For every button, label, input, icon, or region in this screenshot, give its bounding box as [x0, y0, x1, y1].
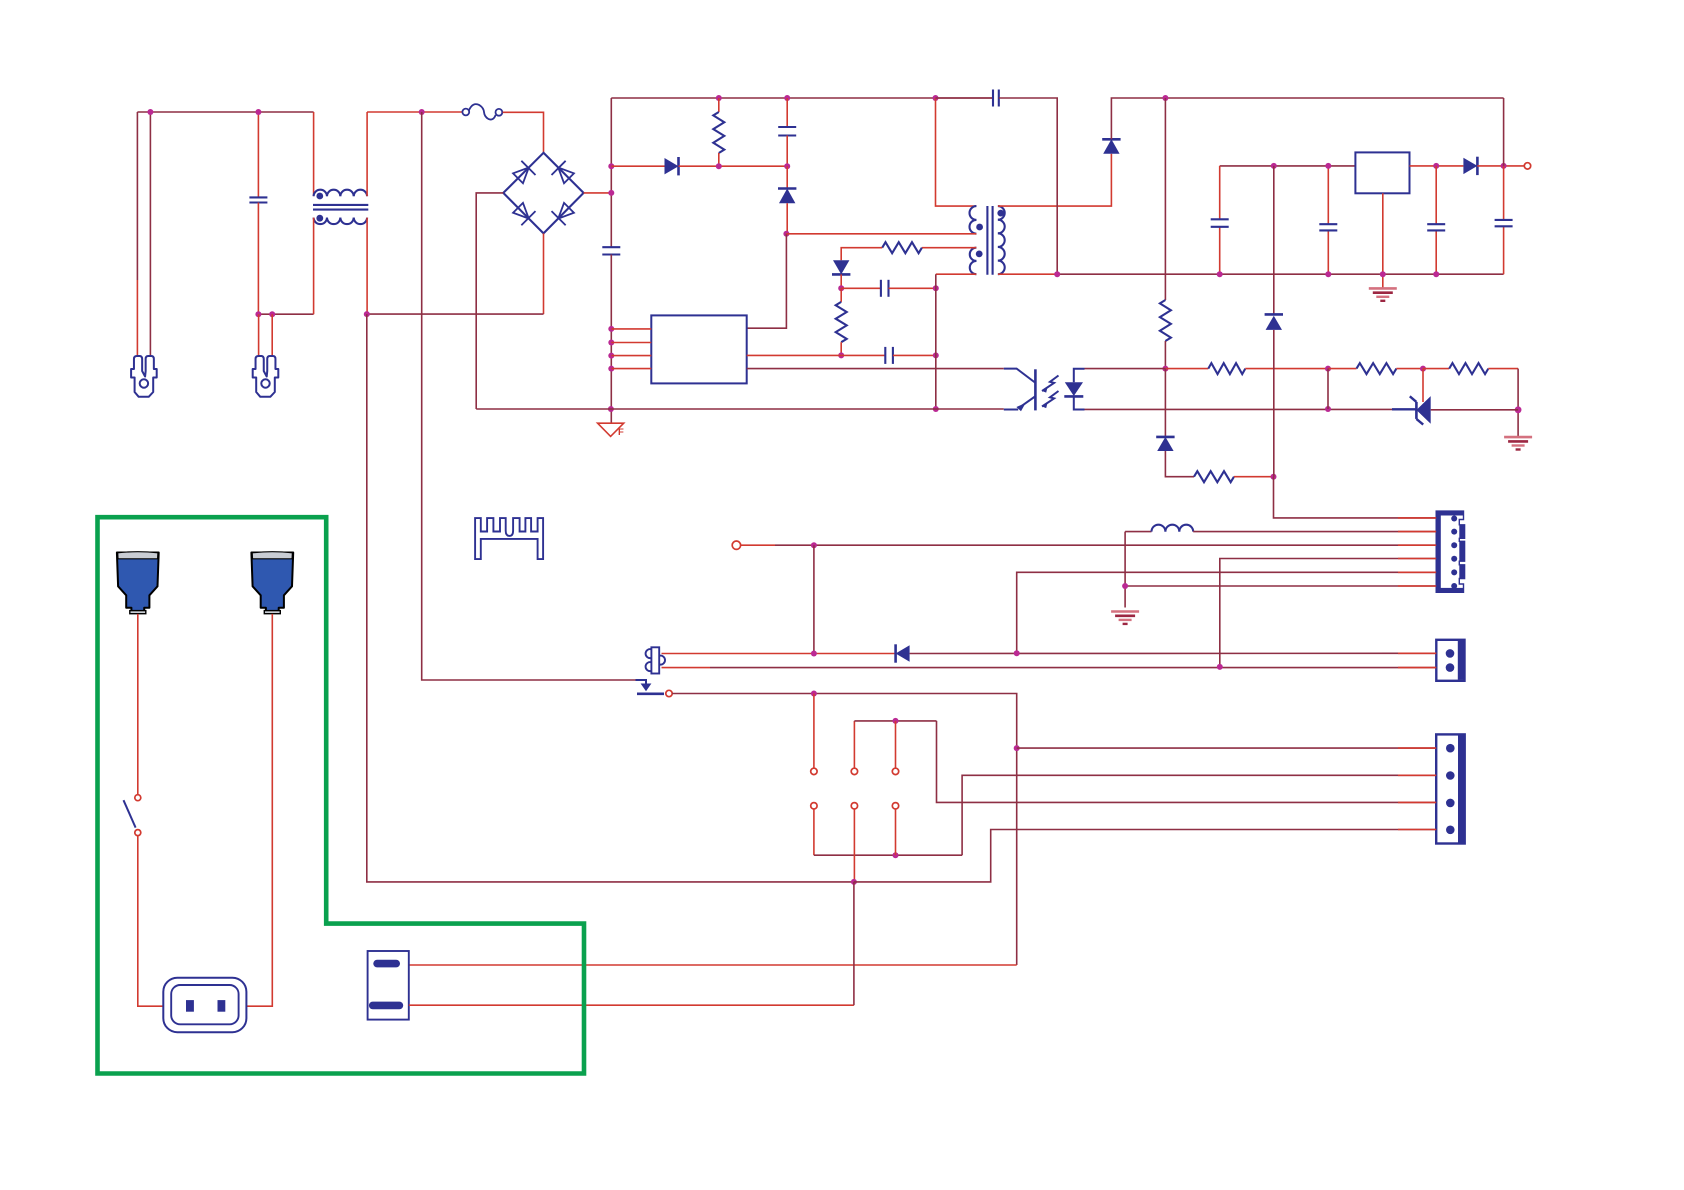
- wire P1 drop: [137, 614, 139, 795]
- thermal cutout SW2: [636, 680, 665, 694]
- wire choke L1 right riser: [366, 112, 368, 196]
- wire top-left rail L segment: [137, 111, 313, 113]
- wire railA to Y-cap: [936, 97, 994, 99]
- fuse F1: [462, 104, 502, 119]
- tl431 U4: [1392, 396, 1518, 425]
- diode D4 secondary rect: [1102, 139, 1120, 154]
- wire output top corner: [1219, 165, 1221, 167]
- inductor L1 bottom winding: [314, 218, 368, 225]
- wire fb bridge vertical: [1327, 369, 1329, 409]
- inductor L2: [1152, 525, 1194, 532]
- wire aux R2 to corner: [841, 248, 882, 261]
- wire contact1 top drop: [813, 694, 815, 769]
- ground secondary right: [1504, 437, 1532, 449]
- node minus-sense junction: [1271, 474, 1277, 480]
- wire J3 pin tips: [1398, 748, 1436, 829]
- wire D5 to terminal: [1477, 165, 1524, 167]
- node rail-T1 junction: [933, 95, 939, 101]
- diode BR1-D4 (bottom-right arm): [552, 203, 574, 225]
- wire fb row to R5: [1165, 368, 1208, 370]
- inductor L1 top winding: [314, 190, 368, 197]
- node railB-sense junction: [1162, 95, 1168, 101]
- resistor R5 fb: [1208, 363, 1245, 374]
- ac outlet J4: [163, 978, 246, 1032]
- wire L2 to J1 pin2: [1193, 531, 1436, 533]
- ground F primary: [598, 423, 624, 438]
- resistor R3 aux: [836, 288, 847, 355]
- wire bridge left vertex to DC-: [476, 193, 503, 409]
- wire fb row r1: [1085, 368, 1166, 370]
- capacitor C7 out: [1211, 219, 1229, 227]
- terminal SW2 circle: [666, 690, 672, 696]
- node fb-row junction3: [1420, 366, 1426, 372]
- core T1: [987, 206, 992, 275]
- wire fuse to bridge top: [503, 112, 544, 153]
- wire thermal to relay net: [409, 694, 1017, 966]
- capacitor C2 bulk: [602, 247, 620, 254]
- wire aux sense diode stem: [1164, 369, 1166, 437]
- ic U1 box: [651, 315, 746, 383]
- wire D7 down: [1273, 330, 1275, 477]
- wire R5 to node: [1245, 368, 1328, 370]
- diode D6 fb: [1156, 437, 1174, 451]
- wire contact top bus: [854, 720, 936, 722]
- wire D4 to rail B: [1111, 98, 1503, 139]
- node IC pin1 junction: [608, 326, 614, 332]
- node pin6-gnd junction: [1122, 583, 1128, 589]
- wire P2 drop: [246, 614, 272, 1006]
- wire J1 pin tips: [1398, 518, 1436, 586]
- node C9-top junction: [1433, 163, 1439, 169]
- connector J2: [1436, 640, 1464, 681]
- capacitor C4 aux: [881, 280, 889, 297]
- terminal sense circle: [732, 541, 740, 549]
- relay contact circles bottom: [811, 803, 899, 809]
- wire terminal E1 tine-b drop: [149, 112, 151, 356]
- connector J1: [1436, 511, 1464, 592]
- node T1 aux phase dot: [976, 251, 983, 258]
- node J3 pin1 junction: [1014, 745, 1020, 751]
- node T1 secondary phase dot: [997, 210, 1004, 217]
- node aux return-gnd junction: [933, 406, 939, 412]
- wire L2 ground drop: [1124, 532, 1126, 608]
- node contact2-ACline2 junction: [851, 879, 857, 885]
- diode D7 sense: [1265, 314, 1283, 330]
- node C8-bottom junction: [1325, 271, 1331, 277]
- diode D5 output: [1463, 157, 1477, 175]
- resistor R1 snubber: [713, 98, 724, 166]
- regulator U3 box: [1355, 152, 1409, 193]
- current sensor CT1: [646, 647, 665, 673]
- wire contact2 bottom drop: [853, 809, 855, 882]
- node DC+ bridge junction: [608, 190, 614, 196]
- node T1 primary phase dot: [976, 224, 983, 231]
- wire terminal E2 tine-b drop: [271, 314, 273, 356]
- wire D8 to J2 pin1: [910, 652, 1437, 654]
- node Vout junction: [1501, 163, 1507, 169]
- wire choke L1 right-bottom drop: [366, 218, 368, 315]
- node contact3-busb junction: [893, 852, 899, 858]
- ground secondary under U3: [1369, 288, 1397, 300]
- wire D6 to R8: [1165, 451, 1194, 477]
- enclosure outline: [98, 517, 585, 1073]
- node pin4-J2bot junction: [1217, 664, 1223, 670]
- wire DC+ vertical x=611: [610, 98, 612, 247]
- node C9-bottom junction: [1433, 271, 1439, 277]
- wire aux cap C4 left stem: [841, 287, 881, 289]
- wire coil bottom net: [409, 882, 854, 1005]
- wire snubber bottom y=166 b: [679, 165, 788, 167]
- wire D3 to node: [840, 274, 842, 288]
- node tl431 anode junction: [1515, 406, 1522, 413]
- svg-text:F: F: [618, 427, 624, 438]
- wire Y-cap down: [999, 98, 1057, 274]
- wire J1 pin3 net: [741, 544, 1437, 546]
- node aux cap-C4 junction: [933, 285, 939, 291]
- node C3-bottom junction: [784, 163, 790, 169]
- node rail-C1 junction: [255, 109, 261, 115]
- node rail-E1 junction: [147, 109, 153, 115]
- wire U3 out to D5: [1410, 165, 1464, 167]
- node choke-ACline2 junction: [364, 311, 370, 317]
- wire neutral link y=314: [258, 313, 313, 315]
- wire rail to fuse: [367, 111, 462, 113]
- wire snubber bottom y=166: [611, 165, 664, 167]
- wire J3 pin1 net: [1017, 747, 1436, 749]
- wire AC line1 vertical: [422, 112, 636, 680]
- wire primary gnd vertical x=611: [610, 255, 612, 424]
- node contact1-top junction: [811, 691, 817, 697]
- capacitor C8 out: [1319, 224, 1337, 230]
- wire aux top with R2: [922, 247, 977, 249]
- node pin5-J2top junction: [1014, 650, 1020, 656]
- wire out-sense vertical: [1273, 166, 1275, 314]
- node CT-pin3link junction: [811, 651, 817, 657]
- wire pin3 to J2 link: [813, 545, 815, 653]
- node fb-row junction1: [1162, 366, 1168, 372]
- capacitor C6 Y-cap: [993, 90, 999, 107]
- wire output cap C8: [1327, 166, 1329, 274]
- wire J1 pin4 net: [1220, 559, 1436, 667]
- wire output cap C10: [1503, 166, 1505, 274]
- diode D8: [896, 644, 910, 662]
- wire U1 fb pin to C5: [747, 354, 886, 356]
- node IC pin4 junction: [608, 366, 614, 372]
- resistor R7 fb: [1423, 363, 1518, 374]
- wire pgnd rail y=409: [476, 408, 1004, 410]
- optocoupler U2 light arrows: [1042, 376, 1059, 409]
- wire R4 to fb row: [1164, 341, 1166, 369]
- wire J1 pin2 coil feed: [1125, 531, 1151, 533]
- wire bottom bus to J3 pin2: [962, 775, 1436, 855]
- wire choke L1 left riser: [313, 112, 315, 196]
- node IC pin3 junction: [608, 353, 614, 359]
- wire contact bottom bus: [814, 854, 962, 856]
- terminal Vout circle: [1524, 163, 1530, 169]
- node out-sense junction: [1271, 163, 1277, 169]
- wire output cap C7: [1219, 166, 1221, 274]
- resistor R6 fb: [1328, 363, 1423, 374]
- wire output top row: [1220, 165, 1356, 167]
- diode BR1-D1 (top-left arm): [513, 161, 535, 183]
- wire led cathode row: [1085, 408, 1393, 410]
- node U3-gnd junction: [1380, 271, 1386, 277]
- node rail-R1 junction: [716, 95, 722, 101]
- wire secondary bottom rail: [998, 273, 1504, 275]
- node pin3-J2 junction: [811, 542, 817, 548]
- wire primary rail y=98: [611, 97, 993, 99]
- wire C5 to aux return: [893, 354, 936, 356]
- wire terminal E1 tine-a drop: [136, 112, 138, 356]
- diode D1 boost: [665, 157, 679, 175]
- wire CT to J2 pin1: [662, 653, 896, 655]
- capacitor C9 out: [1427, 224, 1445, 230]
- node C7-bottom junction: [1217, 271, 1223, 277]
- wire top bus to J3 pin3: [937, 721, 1437, 803]
- node IC pin2 junction: [608, 340, 614, 346]
- wire SW1 to outlet: [138, 836, 164, 1007]
- resistor R2 aux: [882, 242, 922, 253]
- wire T1 primary bottom: [786, 233, 976, 235]
- wire CT to J2 pin2: [662, 667, 1437, 669]
- node fb-row junction2: [1325, 366, 1331, 372]
- wire drain to IC: [747, 234, 787, 328]
- node L1 top phase dot: [316, 193, 323, 200]
- wire sense divider top: [1164, 98, 1166, 300]
- node rail-C3 junction: [784, 95, 790, 101]
- wire cap C1 bottom stem: [257, 203, 259, 315]
- connector J3: [1436, 734, 1465, 843]
- connector P1 plug: [117, 552, 159, 614]
- wire contact2 top: [853, 721, 855, 768]
- ground logic: [1111, 612, 1139, 624]
- wire aux cap C4 right stem: [889, 287, 936, 289]
- wire cap C1 top stem: [257, 112, 259, 197]
- wire secondary top to D4: [998, 154, 1112, 206]
- diode BR1-D3 (bottom-left arm): [513, 203, 535, 225]
- wire aux winding bottom: [936, 273, 977, 275]
- wire bridge right vertex to DC+: [584, 192, 612, 194]
- heatsink HS1: [475, 518, 543, 559]
- wire output cap C9: [1435, 166, 1437, 274]
- node C5-return junction: [933, 352, 939, 358]
- node fb-bridge junction: [1325, 406, 1331, 412]
- capacitor C5 aux: [885, 347, 893, 364]
- wire contact3 top: [895, 721, 897, 768]
- resistor R4 sense: [1160, 300, 1171, 341]
- wire railB down to Vout: [1503, 98, 1505, 166]
- wire opto collector row: [747, 368, 1004, 370]
- capacitor C1 (X-cap): [249, 197, 267, 202]
- diode D3 aux rect: [832, 260, 850, 274]
- resistor R8: [1194, 471, 1234, 482]
- transformer T1 secondary winding: [998, 206, 1005, 274]
- diode D2 clamp: [778, 189, 796, 204]
- wire J1 pin1 net: [1274, 477, 1437, 518]
- node L1 bottom phase dot: [316, 215, 323, 222]
- node aux node1 junction: [838, 285, 844, 291]
- wire R7 down to gnd row: [1517, 369, 1519, 437]
- connector P2 plug: [251, 552, 293, 614]
- wire choke L1 left-bottom drop: [313, 218, 315, 315]
- switch SW1: [124, 795, 141, 836]
- node R1-bottom junction: [716, 163, 722, 169]
- node rail-ACline1 junction: [419, 109, 425, 115]
- node pgnd junction: [608, 406, 614, 412]
- node drain junction: [783, 231, 789, 237]
- wire J1 pin5 net: [1017, 572, 1436, 653]
- transformer T1 primary winding: [970, 206, 977, 234]
- wire aux return vertical: [935, 274, 937, 409]
- wire bridge bottom vertex drop: [367, 233, 544, 314]
- wire AC line2 vertical: [367, 314, 854, 882]
- wire R8 to J1 net: [1234, 476, 1274, 478]
- node contact3-bus junction: [893, 718, 899, 724]
- relay coil K1: [368, 951, 409, 1020]
- transformer T1 aux winding: [970, 248, 977, 275]
- node C8-top junction: [1325, 163, 1331, 169]
- wire U1 pin stubs left: [611, 329, 651, 369]
- wire clamp to drain node: [786, 203, 788, 234]
- terminal lug E1: [131, 356, 157, 397]
- diode BR1-D2 (top-right arm): [552, 161, 574, 183]
- wire U3 ground stem: [1382, 193, 1384, 288]
- optocoupler U2 phototransistor: [1004, 369, 1036, 412]
- wire contact3 bottom: [895, 809, 897, 855]
- terminal lug E2: [253, 356, 279, 397]
- capacitor C3 snubber: [778, 98, 796, 166]
- core L1: [313, 205, 368, 210]
- bridge BR1 diamond: [503, 153, 583, 234]
- node E2-neutral junction: [269, 311, 275, 317]
- wire terminal E2 tine-a drop: [258, 314, 260, 356]
- node aux node2 junction: [838, 352, 844, 358]
- wire contact1 bottom drop: [813, 809, 815, 855]
- wire J2 pin tips: [1398, 653, 1436, 667]
- node snubber-return junction: [608, 163, 614, 169]
- wire ACline2 to J3 pin4: [854, 830, 1436, 882]
- wire J1 pin6 net: [1126, 585, 1436, 587]
- wire clamp diode stem: [786, 166, 788, 188]
- node Ycap-secondary junction: [1054, 271, 1060, 277]
- node C1-neutral junction: [255, 311, 261, 317]
- wire tl431 ref: [1422, 369, 1424, 402]
- relay contact circles top: [811, 768, 899, 774]
- wire T1 primary top: [936, 98, 977, 206]
- optocoupler U2 led: [1064, 369, 1084, 410]
- capacitor C10 out: [1495, 220, 1513, 226]
